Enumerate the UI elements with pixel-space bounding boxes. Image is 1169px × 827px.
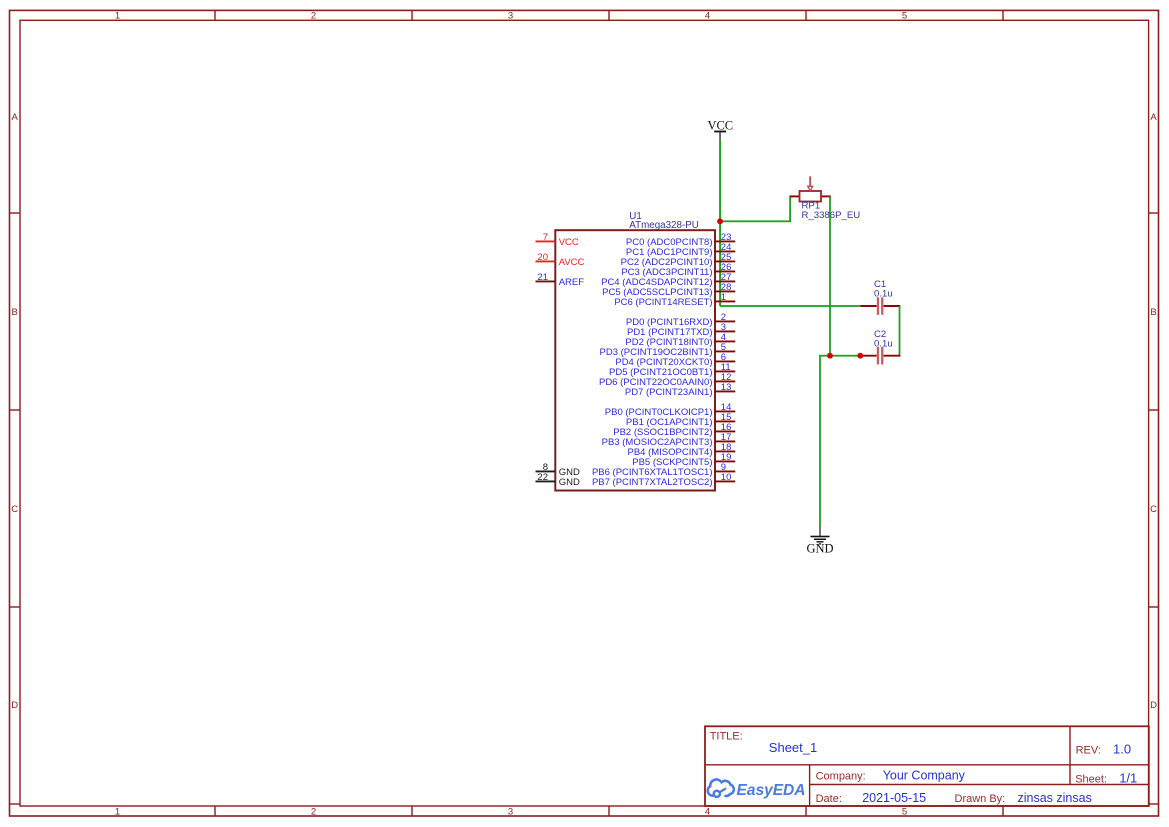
svg-text:ATmega328-PU: ATmega328-PU bbox=[629, 220, 699, 231]
svg-text:C: C bbox=[1150, 504, 1157, 515]
svg-text:GND: GND bbox=[559, 477, 580, 488]
svg-text:3: 3 bbox=[508, 806, 513, 817]
junction dot gnd net at C2 bbox=[857, 353, 863, 359]
svg-text:C: C bbox=[11, 504, 18, 515]
value 0.1u (C2) bbox=[874, 338, 893, 349]
svg-text:2021-05-15: 2021-05-15 bbox=[862, 791, 926, 805]
pin 3 PD1 (right) bbox=[627, 322, 735, 338]
svg-text:D: D bbox=[1150, 700, 1157, 711]
svg-text:4: 4 bbox=[705, 806, 710, 817]
svg-text:0.1u: 0.1u bbox=[874, 338, 893, 349]
svg-text:2: 2 bbox=[311, 11, 316, 22]
pin 1 PC6 (right) bbox=[614, 292, 735, 308]
pin 12 PD6 (right) bbox=[599, 372, 735, 388]
svg-text:13: 13 bbox=[721, 382, 732, 393]
pin 15 PB1 (right) bbox=[626, 412, 735, 428]
svg-text:B: B bbox=[1150, 307, 1156, 318]
svg-text:21: 21 bbox=[537, 272, 548, 283]
pin 13 PD7 (right) bbox=[625, 382, 735, 398]
pin 18 PB4 (right) bbox=[628, 442, 736, 458]
svg-text:10: 10 bbox=[721, 472, 732, 483]
svg-text:A: A bbox=[1150, 112, 1157, 123]
svg-text:1.0: 1.0 bbox=[1113, 742, 1131, 757]
power flag VCC bbox=[707, 118, 733, 141]
svg-text:7: 7 bbox=[543, 232, 548, 243]
pin 14 PB0 (right) bbox=[605, 402, 735, 418]
svg-text:AREF: AREF bbox=[559, 277, 585, 288]
pin 5 PD3 (right) bbox=[600, 342, 736, 358]
svg-text:4: 4 bbox=[705, 11, 710, 22]
wire RP1 down to gnd net bbox=[829, 196, 831, 356]
svg-text:VCC: VCC bbox=[707, 118, 733, 132]
svg-text:A: A bbox=[12, 112, 19, 123]
pin 6 PD4 (right) bbox=[615, 352, 735, 368]
pin 25 PC2 (right) bbox=[621, 252, 736, 268]
svg-text:0.1u: 0.1u bbox=[874, 288, 893, 299]
pin 27 PC4 (right) bbox=[601, 272, 735, 288]
wire VCC node to RP1 bbox=[720, 196, 791, 222]
wire VCC node down to C1 bbox=[719, 222, 860, 307]
capacitor C1 bbox=[860, 297, 900, 315]
value ATmega328-PU bbox=[629, 220, 699, 231]
wire VCC vertical bbox=[719, 141, 721, 222]
svg-text:Company:: Company: bbox=[816, 771, 866, 783]
svg-text:Your Company: Your Company bbox=[883, 769, 966, 783]
svg-text:3: 3 bbox=[508, 11, 513, 22]
svg-text:B: B bbox=[12, 307, 18, 318]
svg-text:Sheet:: Sheet: bbox=[1075, 773, 1107, 785]
wire gnd net horizontal bbox=[819, 355, 860, 357]
pin 20 AVCC (left) bbox=[536, 252, 585, 268]
pin 7 VCC (left) bbox=[536, 232, 579, 248]
svg-text:TITLE:: TITLE: bbox=[710, 730, 743, 742]
capacitor C2 bbox=[860, 347, 900, 365]
svg-text:2: 2 bbox=[311, 806, 316, 817]
pin 16 PB2 (right) bbox=[613, 422, 735, 438]
junction dot gnd net at RP1 wire bbox=[827, 353, 833, 359]
pin 23 PC0 (right) bbox=[626, 232, 735, 248]
svg-text:Sheet_1: Sheet_1 bbox=[769, 740, 817, 755]
label U1 bbox=[629, 211, 642, 222]
svg-text:PD7 (PCINT23AIN1): PD7 (PCINT23AIN1) bbox=[625, 387, 713, 398]
IC U1 body bbox=[555, 230, 715, 490]
ground GND bbox=[806, 526, 833, 555]
label C1 bbox=[874, 279, 886, 290]
svg-text:Drawn By:: Drawn By: bbox=[955, 793, 1006, 805]
svg-text:20: 20 bbox=[537, 252, 548, 263]
svg-text:EasyEDA: EasyEDA bbox=[737, 782, 806, 799]
svg-text:22: 22 bbox=[537, 472, 548, 483]
pin 28 PC5 (right) bbox=[602, 282, 735, 298]
svg-text:1/1: 1/1 bbox=[1119, 770, 1137, 785]
pin 22 GND (left) bbox=[536, 472, 580, 488]
svg-text:REV:: REV: bbox=[1076, 745, 1101, 757]
svg-text:zinsas zinsas: zinsas zinsas bbox=[1018, 791, 1092, 805]
svg-text:D: D bbox=[11, 700, 18, 711]
svg-text:Date:: Date: bbox=[816, 793, 842, 805]
pin 21 AREF (left) bbox=[536, 272, 585, 288]
junction dot VCC node bbox=[717, 218, 723, 224]
svg-text:PC6 (PCINT14RESET): PC6 (PCINT14RESET) bbox=[614, 297, 712, 308]
pin 8 GND (left) bbox=[536, 462, 580, 478]
svg-text:VCC: VCC bbox=[559, 237, 579, 248]
label RP1 bbox=[802, 201, 821, 212]
svg-text:1: 1 bbox=[115, 806, 120, 817]
label C2 bbox=[874, 329, 886, 340]
svg-text:AVCC: AVCC bbox=[559, 257, 585, 268]
pin 26 PC3 (right) bbox=[621, 262, 735, 278]
pin 11 PD5 (right) bbox=[609, 362, 735, 378]
value R_3386P_EU bbox=[802, 210, 861, 221]
pin 17 PB3 (right) bbox=[602, 432, 736, 448]
svg-text:5: 5 bbox=[902, 806, 907, 817]
svg-text:PB7 (PCINT7XTAL2TOSC2): PB7 (PCINT7XTAL2TOSC2) bbox=[592, 477, 713, 488]
svg-text:1: 1 bbox=[115, 11, 120, 22]
pin 10 PB7 (right) bbox=[592, 472, 735, 488]
svg-text:5: 5 bbox=[902, 11, 907, 22]
svg-text:1: 1 bbox=[721, 292, 726, 303]
pin 19 PB5 (right) bbox=[632, 452, 735, 468]
pin 4 PD2 (right) bbox=[625, 332, 735, 348]
pin 9 PB6 (right) bbox=[592, 462, 735, 478]
potentiometer RP1 bbox=[790, 176, 831, 201]
wire C1 to C2 right side bbox=[899, 306, 901, 356]
value 0.1u (C1) bbox=[874, 288, 893, 299]
pin 24 PC1 (right) bbox=[626, 242, 735, 258]
svg-text:GND: GND bbox=[806, 541, 833, 555]
pin 2 PD0 (right) bbox=[626, 312, 735, 328]
wire down to GND bbox=[819, 356, 821, 526]
